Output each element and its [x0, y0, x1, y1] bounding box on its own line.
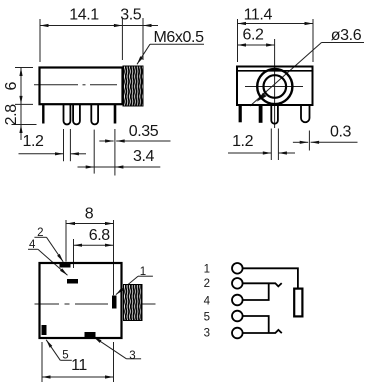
svg-text:0.3: 0.3 — [330, 124, 352, 141]
svg-text:1.2: 1.2 — [232, 133, 254, 150]
svg-text:11: 11 — [71, 357, 87, 374]
svg-text:3.4: 3.4 — [133, 148, 155, 165]
svg-text:11.4: 11.4 — [244, 6, 273, 23]
svg-text:4: 4 — [29, 239, 36, 251]
svg-text:ø3.6: ø3.6 — [331, 27, 362, 44]
svg-text:14.1: 14.1 — [69, 7, 99, 24]
svg-text:0.35: 0.35 — [129, 123, 159, 140]
svg-text:5: 5 — [204, 312, 210, 324]
svg-text:1: 1 — [140, 266, 146, 278]
svg-text:6: 6 — [3, 82, 20, 91]
svg-text:3.5: 3.5 — [120, 7, 142, 24]
svg-text:5: 5 — [62, 350, 68, 362]
svg-text:2.8: 2.8 — [3, 104, 20, 126]
svg-text:1: 1 — [204, 263, 210, 275]
svg-text:3: 3 — [204, 328, 210, 340]
svg-text:6.2: 6.2 — [242, 26, 264, 43]
svg-text:3: 3 — [129, 350, 135, 362]
svg-text:2: 2 — [204, 278, 210, 290]
svg-text:8: 8 — [85, 205, 94, 222]
svg-text:2: 2 — [37, 227, 43, 239]
svg-text:6.8: 6.8 — [89, 227, 111, 244]
svg-text:M6x0.5: M6x0.5 — [154, 29, 205, 46]
svg-text:4: 4 — [204, 295, 211, 307]
svg-text:1.2: 1.2 — [22, 133, 44, 150]
